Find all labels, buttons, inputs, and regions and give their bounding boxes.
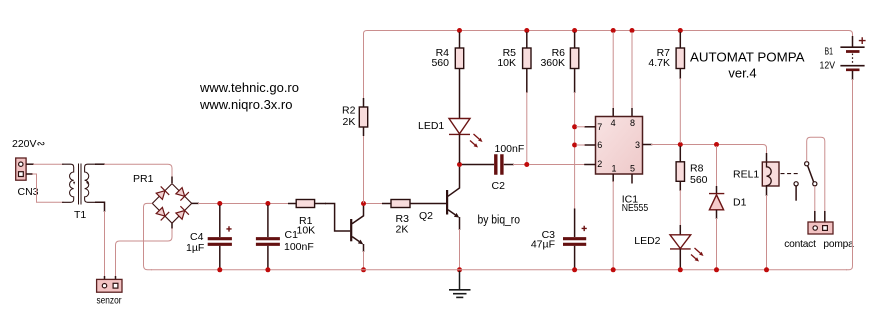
wire R8 to LED2 (679, 190, 681, 226)
LED2 light arrows (691, 248, 700, 259)
junction dot C3 bottom (572, 267, 577, 272)
pin 7 stub (584, 126, 595, 128)
relay switch NC contact circle (794, 182, 798, 186)
wire CN3 pin2 down and to T1 primary bottom (26, 173, 33, 175)
capacitor C1 (256, 205, 280, 268)
resistor R7 (676, 32, 684, 79)
LED LED1 (449, 69, 483, 163)
junction dot top rail pin8 (630, 28, 635, 33)
resistor R5 (523, 32, 531, 93)
wire Q1 emitter to ground rail (363, 251, 365, 270)
relay switch common contact circle (805, 162, 809, 166)
svg-text:560: 560 (690, 174, 708, 186)
svg-text:C2: C2 (492, 180, 506, 192)
wire relay coil to ground rail (766, 195, 768, 270)
junction dot C2 R5 pin2 node (524, 162, 529, 167)
op-amp style IC body IC1 (596, 108, 643, 174)
diode D1 flyback (709, 146, 724, 268)
wire C2 to R5 node (513, 164, 525, 166)
relay switch NO contact circle (813, 182, 817, 186)
svg-text:10K: 10K (297, 225, 316, 237)
connector contact pompa (808, 222, 833, 234)
capacitor C3 (563, 209, 587, 269)
junction dot LED2 bottom (678, 267, 683, 272)
diode PR1 top-left (156, 191, 165, 200)
junction dot C4 top (217, 201, 222, 206)
LED LED2 (670, 225, 704, 268)
battery plus sign (859, 37, 866, 44)
resistor R6 (570, 32, 578, 93)
pin 5 stub (631, 174, 633, 184)
junction dot Q1 emitter at ground rail (361, 267, 366, 272)
capacitor C2 (462, 154, 514, 174)
wire T1 secondary top to bridge top (95, 163, 105, 165)
wire PR1 right vertex to +V mid rail (192, 202, 199, 204)
junction dot relay bottom (764, 267, 769, 272)
junction dot C4 bottom (217, 267, 222, 272)
svg-text:www.niqro.3x.ro: www.niqro.3x.ro (199, 97, 292, 112)
wire T1 secondary bottom to senzor pin1 (95, 202, 105, 212)
wire mid rail (bridge + output) (198, 203, 289, 205)
svg-text:R2: R2 (342, 105, 356, 117)
wire pin8 from top rail (631, 32, 633, 109)
junction dot top rail R7 (678, 28, 683, 33)
junction dot top rail pin4 (611, 28, 616, 33)
junction dot C1 top (265, 201, 270, 206)
ground symbol (449, 271, 471, 297)
svg-text:560: 560 (431, 57, 449, 69)
junction dot top rail R5 (524, 28, 529, 33)
svg-text:pompa: pompa (823, 239, 854, 250)
svg-text:PR1: PR1 (133, 173, 154, 185)
wire R1 to Q1 base (325, 204, 350, 232)
junction dot C1 bottom (265, 267, 270, 272)
junction dot pin1 bottom (611, 267, 616, 272)
svg-text:R8: R8 (690, 163, 704, 175)
junction dot pin7 node (572, 124, 577, 129)
svg-text:100nF: 100nF (284, 241, 314, 253)
resistor R4 (455, 32, 463, 69)
pin 3 stub (643, 144, 653, 146)
svg-text:LED2: LED2 (634, 235, 660, 247)
svg-text:4: 4 (611, 118, 616, 128)
pin 2 stub (584, 164, 595, 166)
wire collector node to R3 (366, 203, 383, 205)
svg-text:1: 1 (612, 164, 617, 174)
wire PR1 bottom vertex to senzor pin2 (171, 223, 173, 229)
wire switch common arch to pompa pin (807, 137, 825, 212)
svg-text:1µF: 1µF (186, 242, 204, 254)
wire pin2 net to IC (529, 164, 585, 166)
junction dot D1 bottom (714, 267, 719, 272)
stub NC contact (795, 186, 797, 201)
wire pin4 from top rail (612, 32, 614, 109)
resistor R8 (676, 146, 684, 191)
svg-text:CN3: CN3 (18, 186, 39, 198)
svg-text:220V∾: 220V∾ (12, 138, 46, 150)
resistor R2 (359, 98, 367, 136)
LED1 light arrows (470, 134, 479, 145)
wire stub PR1 top vertex (171, 177, 173, 184)
svg-text:by biq_ro: by biq_ro (478, 215, 521, 227)
wire CN3 pin1 to T1 primary top (26, 163, 34, 165)
svg-text:senzor: senzor (97, 295, 122, 307)
relay coil REL1 (762, 153, 779, 196)
resistor R3 (382, 200, 446, 208)
junction dot pin3 R7 R8 node (678, 142, 683, 147)
svg-text:LED1: LED1 (418, 120, 444, 132)
wire top rail (371, 31, 853, 38)
svg-text:B1: B1 (825, 47, 834, 58)
wire pin6 to R6 column (576, 144, 585, 146)
transistor Q2 (447, 166, 459, 230)
svg-text:Q2: Q2 (419, 210, 433, 222)
wire ground bottom rail (151, 269, 847, 271)
diode PR1 top-right (176, 188, 185, 197)
svg-text:12V: 12V (820, 61, 836, 72)
transformer T1 (62, 164, 96, 205)
svg-text:7: 7 (597, 122, 602, 132)
wire Q2 emitter to ground rail (459, 229, 461, 270)
capacitor C4 (208, 205, 232, 268)
wire R2 top rail corner down to collector node (363, 133, 365, 203)
bridge rectifier PR1 (152, 184, 191, 224)
wire R7 to pin3 node (679, 78, 681, 143)
svg-text:100nF: 100nF (495, 143, 525, 155)
junction dot top rail R6 (572, 28, 577, 33)
svg-text:ver.4: ver.4 (728, 66, 756, 81)
junction dot Q2 emitter at ground rail (457, 267, 462, 272)
svg-text:6: 6 (597, 140, 602, 150)
svg-text:NE555: NE555 (622, 202, 649, 214)
junction dot LED1 C2 Q2-collector node (457, 162, 462, 167)
pin 6 stub (584, 144, 595, 146)
svg-text:47µF: 47µF (531, 239, 555, 251)
junction dot top rail R4 (457, 28, 462, 33)
svg-text:REL1: REL1 (733, 169, 759, 181)
svg-text:4.7K: 4.7K (648, 57, 670, 69)
svg-text:D1: D1 (733, 197, 747, 209)
svg-text:2: 2 (597, 159, 602, 169)
svg-text:contact: contact (784, 239, 816, 250)
wire R6 column down through pin7 pin6 nodes to C3 (574, 92, 576, 210)
svg-text:3: 3 (635, 140, 640, 150)
battery B1 (840, 36, 865, 80)
svg-text:www.tehnic.go.ro: www.tehnic.go.ro (199, 80, 299, 95)
diode PR1 bottom-left (156, 207, 165, 216)
resistor R1 (288, 200, 326, 208)
svg-text:2K: 2K (396, 224, 409, 236)
wire pin3 net to relay (651, 145, 767, 155)
junction dot pin6 node (572, 143, 577, 148)
svg-text:T1: T1 (74, 209, 86, 221)
svg-text:2K: 2K (343, 116, 356, 128)
transistor Q1 (351, 206, 363, 253)
relay switch blade (808, 166, 814, 182)
junction dot Q1 collector node (361, 201, 366, 206)
svg-text:360K: 360K (540, 57, 565, 69)
wire PR1 left vertex to ground rail (144, 203, 153, 269)
pin 1 stub (612, 174, 614, 182)
diode PR1 bottom-right (176, 211, 185, 220)
svg-text:AUTOMAT POMPA: AUTOMAT POMPA (690, 50, 805, 65)
svg-text:8: 8 (630, 118, 635, 128)
svg-text:10K: 10K (497, 57, 516, 69)
junction dot pin3 D1 node (714, 142, 719, 147)
wire battery negative down right side (846, 79, 853, 270)
relay mechanical dashed link (781, 173, 800, 175)
connector CN3 (16, 158, 26, 180)
wire pin7 to R6 column (576, 126, 585, 128)
wire R5 down to pin2 node (526, 92, 528, 162)
wire NO contact to contact pin (814, 186, 816, 212)
connector senzor (97, 279, 122, 292)
svg-text:5: 5 (630, 164, 635, 174)
wire pin1 to ground rail (612, 181, 614, 270)
